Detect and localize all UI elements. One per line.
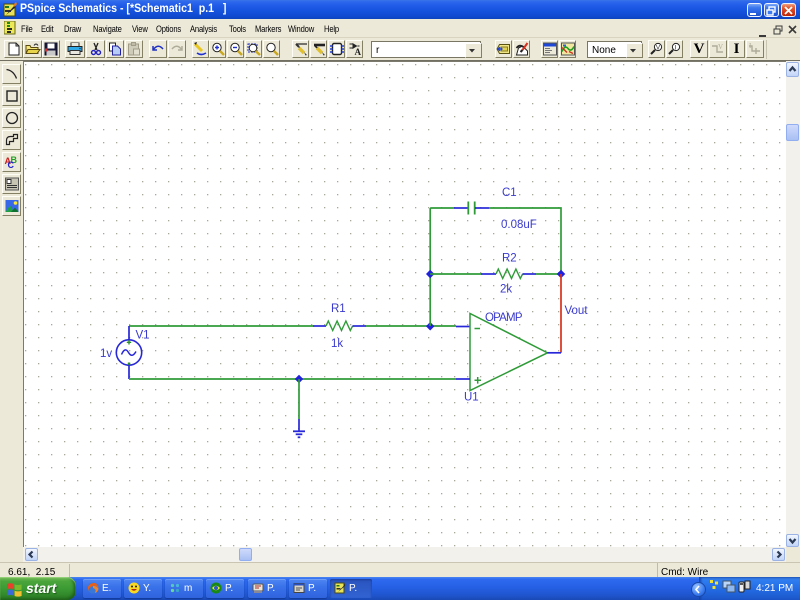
value 0.08uF <box>501 219 537 231</box>
edit symbol <box>513 40 530 58</box>
wire R1 to opamp <box>366 325 456 327</box>
V adv (disabled) <box>709 40 727 58</box>
task buttons <box>83 579 121 598</box>
part combo <box>371 41 481 58</box>
zoom in <box>209 40 226 58</box>
svg-text:V: V <box>656 46 660 52</box>
svg-text:A: A <box>354 47 361 56</box>
junction node ground <box>295 375 303 383</box>
value 1v <box>100 348 112 360</box>
simulate <box>559 40 576 58</box>
I button <box>728 40 745 58</box>
resistor R2 <box>481 269 536 279</box>
get part <box>346 40 363 58</box>
wire bottom rail <box>129 378 456 380</box>
current probe <box>666 40 683 58</box>
svg-text:0.08uF: 0.08uF <box>501 219 537 231</box>
copy <box>106 40 124 58</box>
none combo <box>587 41 642 58</box>
zoom out <box>227 40 244 58</box>
draw block <box>328 40 345 58</box>
wire ground stem <box>298 379 300 419</box>
undo <box>149 40 167 58</box>
svg-text:V: V <box>718 43 723 51</box>
svg-text:1k: 1k <box>331 338 343 350</box>
wire R2 right <box>536 273 561 275</box>
svg-text:1v: 1v <box>100 348 112 360</box>
active task button (PSpice) <box>330 579 372 598</box>
svg-text:U1: U1 <box>464 392 479 404</box>
wire feedback vertical <box>429 208 431 326</box>
polyline tool <box>2 130 21 150</box>
I adv (disabled) <box>746 40 764 58</box>
wire Vout red <box>560 274 562 353</box>
start button <box>0 577 76 600</box>
resistor R1 <box>313 321 366 331</box>
voltage source V1 <box>116 326 141 379</box>
ground AGND <box>293 419 305 437</box>
svg-text:Vout: Vout <box>565 305 589 317</box>
wire C1 top right <box>489 208 561 274</box>
system tray <box>699 577 800 600</box>
zoom area <box>245 40 262 58</box>
redo (disabled) <box>168 40 186 58</box>
label V1 <box>136 330 150 342</box>
value 2k <box>500 284 512 296</box>
svg-text:OPAMP: OPAMP <box>485 312 523 324</box>
pin stub opamp plus input <box>456 378 470 380</box>
junction node feedback/input <box>426 322 434 330</box>
label R2 <box>502 253 517 265</box>
wire V1 top to R1 <box>129 325 313 327</box>
svg-text:R2: R2 <box>502 253 517 265</box>
value 1k <box>331 338 343 350</box>
op-amp U1 <box>470 314 548 391</box>
label U1 <box>464 392 479 404</box>
zoom page <box>263 40 280 58</box>
textbox tool <box>2 174 21 194</box>
arc tool <box>2 64 21 84</box>
svg-text:2k: 2k <box>500 284 512 296</box>
wire C1 top left <box>430 207 454 209</box>
label C1 <box>502 187 517 199</box>
pin stub opamp output <box>548 352 562 354</box>
save <box>42 40 60 58</box>
pin stub opamp minus input <box>456 326 470 328</box>
svg-text:V1: V1 <box>136 330 150 342</box>
label OPAMP <box>485 312 523 324</box>
svg-text:C1: C1 <box>502 187 517 199</box>
junction node R2 left <box>426 270 434 278</box>
new <box>4 40 23 58</box>
label Vout <box>565 305 589 317</box>
tray chevron <box>691 582 706 597</box>
svg-text:R1: R1 <box>331 303 346 315</box>
voltage probe <box>648 40 665 58</box>
redraw pencil <box>192 40 209 58</box>
capacitor C1 <box>454 202 489 215</box>
setup analysis <box>541 40 558 58</box>
open <box>23 40 42 58</box>
last part list <box>495 40 512 58</box>
circle tool <box>2 108 21 128</box>
wire R2 left <box>430 273 481 275</box>
paste (disabled) <box>125 40 143 58</box>
cut <box>86 40 105 58</box>
insert picture tool <box>2 196 21 216</box>
junction node R2 right <box>557 270 565 278</box>
label R1 <box>331 303 346 315</box>
V button <box>690 40 708 58</box>
text tool <box>2 152 21 172</box>
svg-text:C: C <box>7 160 14 169</box>
draw bus <box>310 40 327 58</box>
draw wire <box>292 40 309 58</box>
print <box>65 40 85 58</box>
box tool <box>2 86 21 106</box>
